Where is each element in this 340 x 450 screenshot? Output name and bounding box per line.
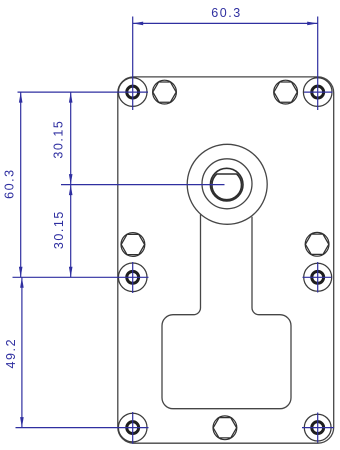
hex screw top-left xyxy=(153,80,177,104)
crosshair mid-right xyxy=(303,276,332,278)
crosshair bottom-left vertical xyxy=(132,412,134,444)
hex screw right xyxy=(305,232,329,256)
arrow 49.2 down xyxy=(20,417,24,428)
plate outline xyxy=(118,77,334,443)
hole top-left xyxy=(118,78,147,107)
extension line row1 horizontal xyxy=(18,91,149,93)
shaft outer circle xyxy=(210,168,243,201)
boss outer circle xyxy=(187,144,267,224)
hole bottom-right xyxy=(304,414,331,441)
arrow 60.3 left up xyxy=(19,92,23,103)
extension line row3 horizontal xyxy=(16,427,149,429)
extension line top-left vertical xyxy=(132,17,134,111)
hex screw top-right xyxy=(274,80,298,104)
extension line mid horizontal to shaft center xyxy=(61,184,225,186)
arrow 60.3 left down xyxy=(19,267,23,278)
dimension line 30.15 upper xyxy=(70,92,72,185)
arrow 30.15 lower up xyxy=(69,185,73,196)
hex screw bottom xyxy=(213,416,237,440)
hole bottom-left xyxy=(118,413,147,442)
arrow 49.2 up xyxy=(20,277,24,288)
arrow 60.3 top right xyxy=(307,22,318,26)
hex screw left xyxy=(121,233,145,257)
hole top-right xyxy=(303,78,332,107)
dimension line 60.3 top xyxy=(133,22,318,24)
svg-text:49.2: 49.2 xyxy=(4,338,18,369)
dimension line 60.3 left xyxy=(20,92,22,277)
arrow 30.15 lower down xyxy=(69,267,73,278)
svg-text:60.3: 60.3 xyxy=(211,6,242,20)
hole mid-right xyxy=(304,263,332,291)
keyhole cutout xyxy=(162,214,291,408)
arrow 60.3 top left xyxy=(133,22,144,26)
arrow 30.15 upper up xyxy=(69,92,73,103)
svg-text:30.15: 30.15 xyxy=(52,120,66,159)
hole mid-left xyxy=(118,263,147,292)
extension line top-right vertical xyxy=(317,17,319,111)
crosshair bottom-right xyxy=(302,427,334,429)
boss middle circle xyxy=(202,159,252,209)
crosshair mid-left vertical xyxy=(132,262,134,293)
arrow 30.15 upper down xyxy=(69,174,73,185)
shaft D-bore xyxy=(212,174,242,200)
dimension line 30.15 lower xyxy=(70,185,72,278)
dimension line 49.2 xyxy=(21,277,23,427)
crosshair top-right horizontal xyxy=(304,91,333,93)
extension line row2 horizontal xyxy=(13,276,149,278)
svg-text:30.15: 30.15 xyxy=(52,210,66,249)
svg-text:60.3: 60.3 xyxy=(3,168,17,199)
